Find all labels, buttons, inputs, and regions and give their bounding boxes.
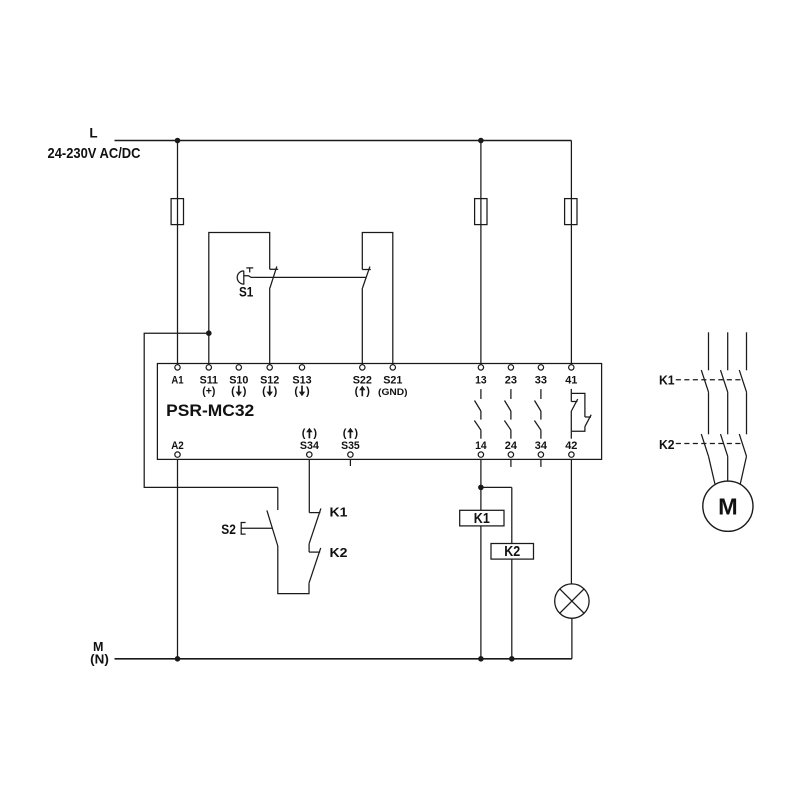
svg-text:M: M (718, 494, 738, 520)
svg-text:S1: S1 (239, 285, 254, 300)
svg-text:K1: K1 (330, 506, 348, 520)
svg-text:34: 34 (535, 440, 548, 452)
svg-text:PSR-MC32: PSR-MC32 (166, 402, 254, 420)
svg-text:(: ( (262, 385, 266, 397)
svg-text:): ) (306, 385, 310, 397)
svg-text:24-230V AC/DC: 24-230V AC/DC (48, 145, 141, 162)
svg-text:): ) (274, 385, 278, 397)
svg-text:(: ( (343, 427, 347, 439)
svg-text:L: L (89, 125, 97, 140)
svg-text:24: 24 (505, 440, 518, 452)
svg-text:41: 41 (565, 374, 577, 386)
svg-text:): ) (366, 385, 370, 397)
svg-text:K2: K2 (659, 437, 675, 452)
svg-text:42: 42 (565, 440, 577, 452)
svg-text:23: 23 (505, 374, 517, 386)
svg-text:): ) (313, 427, 317, 439)
svg-text:S34: S34 (300, 440, 320, 452)
svg-text:(GND): (GND) (378, 387, 408, 397)
svg-text:A2: A2 (171, 440, 184, 452)
svg-text:(: ( (294, 385, 298, 397)
svg-text:14: 14 (475, 440, 487, 452)
svg-text:(N): (N) (90, 652, 109, 666)
svg-text:S21: S21 (383, 374, 402, 386)
svg-text:K1: K1 (474, 511, 490, 527)
svg-text:K2: K2 (504, 544, 520, 560)
svg-text:(: ( (302, 427, 306, 439)
svg-text:(: ( (355, 385, 359, 397)
svg-text:S35: S35 (341, 440, 360, 452)
svg-text:): ) (354, 427, 358, 439)
svg-text:A1: A1 (171, 374, 183, 386)
svg-text:(+): (+) (202, 385, 215, 397)
svg-text:(: ( (231, 385, 235, 397)
svg-text:33: 33 (535, 374, 547, 386)
svg-text:13: 13 (475, 374, 487, 386)
svg-text:): ) (243, 385, 247, 397)
svg-text:K2: K2 (330, 546, 348, 560)
svg-text:K1: K1 (659, 372, 675, 387)
svg-text:S2: S2 (221, 522, 236, 537)
